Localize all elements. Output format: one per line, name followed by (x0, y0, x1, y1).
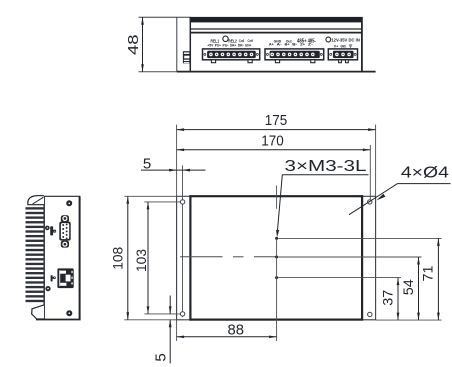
mounting hole top-left (180, 200, 184, 204)
svg-text:DR-: DR- (238, 44, 244, 48)
extension line: bottom M3 hole to 37 dim (278, 277, 401, 279)
side view: heatsink top hook fin (28, 196, 44, 205)
side view: DB9 connector (59, 215, 70, 247)
front view: TB1 silk labels row 2 (pin names) (207, 44, 251, 48)
extension line: plate top edge to 108 dim (124, 195, 176, 197)
svg-text:103: 103 (134, 249, 149, 272)
svg-text:A-: A- (277, 43, 282, 47)
svg-text:Cn6: Cn6 (239, 39, 245, 43)
front view: TB2 silk labels row 1 (274, 38, 316, 44)
front view: terminal block TB1 (control signals) (203, 49, 260, 63)
svg-text:3×M3-3L: 3×M3-3L (285, 158, 368, 175)
extension line: bottom hole center to 103 dim / 5 dim (144, 313, 180, 315)
svg-text:5: 5 (152, 353, 169, 361)
front view: TB3 label 12V-35V DC IN (331, 37, 360, 42)
svg-text:12V-35V DC IN: 12V-35V DC IN (331, 37, 360, 42)
svg-text:B-: B- (292, 43, 297, 47)
svg-text:88: 88 (228, 322, 245, 338)
front view: TB3 pin marks V+ GND earth (334, 45, 352, 49)
dimension 37 (bottom M3 hole height) (381, 278, 400, 321)
front view: TB1 silk labels row 1 (211, 38, 254, 43)
svg-text:A+: A+ (269, 43, 274, 47)
svg-text:48: 48 (125, 35, 142, 56)
side view: RJ45 jack screw (side profile) (51, 275, 56, 281)
side view: screw head near DB9 (45, 226, 50, 231)
svg-text:5: 5 (143, 155, 151, 172)
dimension 175 (overall width) (177, 113, 376, 131)
extension line: plate bottom to right dims (376, 319, 442, 321)
svg-text:Z+: Z+ (300, 43, 305, 47)
svg-text:+5V: +5V (207, 44, 214, 48)
front view: terminal block TB3 (power) (328, 49, 357, 63)
svg-text:DR+: DR+ (230, 44, 236, 48)
side view: heatsink bottom foot (32, 305, 44, 319)
dimension 103 (hole center to hole center vertical) (134, 202, 150, 314)
mounting hole top-right (368, 200, 372, 204)
extension line: right hole center up to 170 dim (369, 145, 371, 199)
svg-text:71: 71 (420, 266, 435, 282)
side view: top panel screw (66, 200, 72, 206)
extension line: plate left edge up to width dims (176, 125, 178, 197)
dimension 54 (middle M3 hole height) (401, 257, 420, 320)
svg-text:GND: GND (340, 45, 346, 49)
svg-text:B+: B+ (285, 43, 290, 47)
front view: power LED above TB3 (326, 37, 331, 42)
svg-text:V+: V+ (334, 45, 339, 49)
front view: plate left edge (176, 17, 178, 71)
front view: LED indicator above TB1 (223, 36, 228, 41)
top view: mounting plate outline (177, 196, 376, 319)
front view: black top strip (190, 17, 362, 23)
svg-text:REL1: REL1 (211, 38, 220, 43)
top view: body outline (190, 196, 362, 319)
front view: panel line upper (190, 28, 362, 30)
dimension 71 (top M3 hole height) (420, 238, 439, 320)
svg-text:4×Ø4: 4×Ø4 (401, 165, 449, 182)
dimension 108 (overall plate height) (111, 196, 130, 319)
side view: RJ45 ethernet port (57, 268, 73, 288)
front view: TB2 silk labels row 2 (pin names) (269, 43, 313, 47)
front view: DB9 side protrusion (183, 51, 190, 63)
extension line: plate right edge up to 175 dim (375, 125, 377, 197)
extension line: plate bottom to 108 dim (124, 319, 176, 321)
mounting hole bottom-right (368, 312, 372, 316)
M3 tapped hole middle (275, 256, 278, 259)
M3 tapped hole top (of 3xM3-3L) (275, 237, 278, 240)
M3 tapped hole bottom (275, 276, 278, 279)
dimension 5 (bottom hole center to plate bottom) (152, 296, 171, 364)
mounting hole bottom-left (180, 312, 184, 316)
extension line: top M3 hole to 71 dim (278, 237, 441, 239)
svg-text:EN+: EN+ (245, 44, 251, 48)
front view: panel line lower (190, 32, 362, 34)
side view: heatsink fins (26, 207, 45, 302)
front view: terminal block TB2 (encoder/RS485) (265, 49, 324, 63)
front view: top edge thin segment (139, 16, 191, 18)
dimension 170 (left edge to right hole center) (177, 133, 371, 151)
svg-text:Z-: Z- (308, 43, 313, 47)
side view: body face plate (36, 196, 81, 319)
svg-text:PU+: PU+ (215, 44, 221, 48)
label 4xD4 with leader to corner hole (349, 165, 451, 215)
label 3xM3-3L with leader to M3 holes (276, 158, 368, 237)
centerline (dash-dot) through middle M3 hole (180, 256, 276, 258)
front view: body right edge (361, 17, 363, 72)
svg-text:REL2: REL2 (228, 38, 237, 43)
dimension 88 (left edge to M3 holes line) (177, 322, 277, 338)
extension line: hole centerline vertical left (x=182.5) (182, 165, 184, 317)
side view: DB9 jack screw (side profile) (50, 226, 56, 235)
svg-text:PU-: PU- (223, 44, 229, 48)
svg-text:Cn9: Cn9 (248, 39, 254, 43)
svg-text:170: 170 (261, 133, 284, 149)
svg-text:175: 175 (265, 113, 288, 129)
M3 holes vertical centerline (276, 185, 278, 341)
front view: bottom base line (139, 71, 376, 73)
dimension 5 (edge to hole center, top left) (141, 155, 206, 172)
svg-text:37: 37 (381, 290, 396, 306)
extension line: plate left edge down to 88 dim (176, 320, 178, 341)
svg-text:54: 54 (401, 279, 416, 296)
extension line: middle M3 hole to 54 dim (278, 256, 421, 258)
side view: screw head below RJ45 (45, 286, 50, 291)
dimension 48 (device height, front view) (125, 17, 144, 72)
extension line: top hole center to 103 dim (144, 201, 180, 203)
svg-text:108: 108 (111, 247, 126, 270)
side view: bottom panel screw (66, 310, 72, 316)
front view: body left edge (189, 17, 191, 72)
